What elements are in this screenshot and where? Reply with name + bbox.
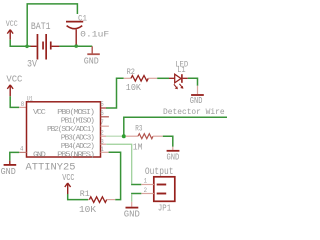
pin stub JP1-2 [141,193,154,195]
svg-text:7: 7 [100,119,103,126]
resistor R2 10K [124,67,158,93]
svg-text:PB0(MOSI): PB0(MOSI) [57,109,94,117]
wire R3 to ground [163,136,173,147]
svg-text:GND: GND [84,56,99,66]
svg-text:6: 6 [100,110,103,117]
svg-text:PB2(SCK/ADC1): PB2(SCK/ADC1) [47,126,94,134]
IC U1 box [27,102,101,157]
svg-text:8: 8 [21,101,24,108]
ground GND bottom-left [1,161,17,177]
wire pin 5 to R2 [106,78,124,108]
pin 4 stub [19,151,26,153]
wire JP1 pin 2 to ground [131,193,141,195]
capacitor C1 0.1uF [66,14,109,45]
junction battery-VCC node [25,45,29,49]
pin 5 stub [101,107,107,109]
svg-text:2: 2 [100,130,103,137]
svg-text:GND: GND [1,167,16,177]
ground GND for LED [190,86,204,106]
svg-text:GND: GND [190,96,203,106]
battery BAT1 [27,22,59,70]
wire battery to C1 node [59,45,92,47]
svg-text:GND: GND [124,209,140,220]
ground GND for R3 [167,147,180,163]
svg-text:PB5(NRES): PB5(NRES) [57,151,94,159]
svg-text:U1: U1 [27,96,33,103]
svg-text:1M: 1M [133,141,143,152]
LED L1 [169,59,188,89]
svg-text:1: 1 [144,178,147,185]
power VCC bottom [62,173,75,194]
connector JP1 [154,177,175,214]
pin 7 stub [101,125,109,127]
junction C1 node [74,44,78,48]
svg-text:GND: GND [167,153,180,163]
ground GND for JP1 [124,202,140,220]
pin 2 stub [101,135,107,137]
svg-text:R2: R2 [127,67,135,77]
svg-text:5: 5 [100,101,103,108]
wire LED to ground [188,78,198,86]
svg-text:JP1: JP1 [158,203,171,214]
wire VCC to R1 [68,194,88,200]
pin 6 stub [101,116,109,118]
svg-text:VCC: VCC [62,173,75,183]
wire pin 4 to ground [10,152,19,160]
pin stub JP1-1 [141,184,154,186]
wire R2 to LED [157,77,169,79]
power VCC mid-left [6,74,23,96]
svg-text:PB4(ADC2): PB4(ADC2) [61,143,95,151]
svg-text:ATTINY25: ATTINY25 [26,162,76,174]
svg-text:R1: R1 [80,189,90,199]
svg-text:GND: GND [33,151,47,159]
svg-text:10K: 10K [126,82,142,93]
wire top rail [27,4,77,46]
svg-text:0.1uF: 0.1uF [80,30,109,39]
node Detector Wire [124,107,227,136]
power VCC top-left [6,19,18,40]
wire VCC to battery rail [10,40,31,47]
junction detector node [122,134,126,138]
svg-text:4: 4 [20,145,23,152]
svg-text:BAT1: BAT1 [31,22,51,33]
wire pin 2 to junction [106,135,124,137]
ground GND top-center [84,46,100,66]
pin 8 stub [19,106,26,108]
svg-text:3V: 3V [27,59,37,70]
svg-text:PB1(MISO): PB1(MISO) [61,117,95,125]
svg-text:L1: L1 [177,65,185,75]
svg-text:PB3(ADC3): PB3(ADC3) [61,134,95,142]
svg-text:Output: Output [145,166,174,177]
wire pin 3 to JP1 pin 1 [106,144,131,184]
svg-text:VCC: VCC [6,74,23,84]
wire pin 1 to R1 [109,152,121,199]
wire VCC to pin 8 [10,96,19,107]
svg-text:VCC: VCC [6,19,18,29]
resistor R1 10K [79,189,115,215]
pin 3 stub [101,143,107,145]
svg-text:10K: 10K [79,204,96,215]
svg-text:VCC: VCC [33,109,47,117]
svg-text:R3: R3 [135,124,142,134]
svg-text:Detector Wire: Detector Wire [163,107,225,117]
svg-text:2: 2 [144,187,147,194]
resistor R3 1M [126,124,163,153]
IC pin labels [33,109,95,159]
pin 1 stub [101,151,109,153]
